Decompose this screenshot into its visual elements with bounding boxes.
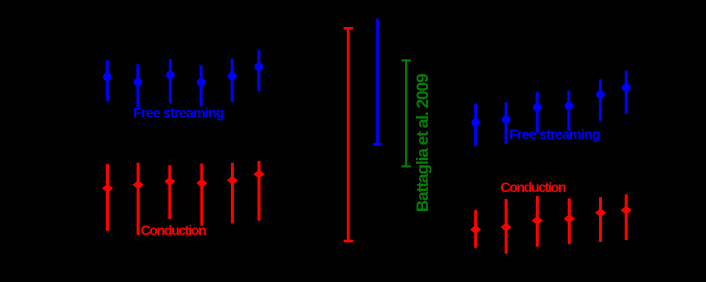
right panel: conduction point 5 error bar <box>599 197 602 242</box>
left panel: conduction point 1 marker <box>104 185 111 191</box>
right panel: free-streaming point 5 marker <box>596 91 605 99</box>
left panel: conduction point 5 marker <box>229 177 236 183</box>
left panel: free-streaming point 5 marker <box>228 72 237 80</box>
left panel: free-streaming point 6 error bar <box>257 50 260 91</box>
right panel: conduction point 1 error bar <box>474 210 477 248</box>
left panel: label Free streaming <box>133 104 224 120</box>
right panel: free-streaming point 3 error bar <box>536 92 539 133</box>
right panel: label Free streaming <box>509 126 600 142</box>
right panel: free-streaming point 1 marker <box>471 119 480 127</box>
left panel: free-streaming point 4 error bar <box>200 65 203 106</box>
left panel: conduction point 1 error bar <box>106 164 109 231</box>
left panel: free-streaming point 1 error bar <box>106 60 109 101</box>
left panel: free-streaming point 5 error bar <box>231 59 234 102</box>
right panel: conduction point 4 error bar <box>568 198 571 244</box>
left panel: conduction point 3 error bar <box>168 165 171 219</box>
svg-text:Conduction: Conduction <box>141 222 207 238</box>
left panel: conduction point 6 error bar <box>258 161 261 221</box>
svg-text:Battaglia et al. 2009: Battaglia et al. 2009 <box>413 74 432 212</box>
right panel: free-streaming point 6 error bar <box>625 71 628 114</box>
left panel: free-streaming point 2 error bar <box>136 64 139 107</box>
left panel: label Conduction <box>141 222 207 238</box>
left panel: conduction point 4 marker <box>198 180 205 186</box>
left panel: conduction point 6 marker <box>255 171 262 177</box>
left panel: conduction point 4 error bar <box>200 164 203 226</box>
left panel: free-streaming point 2 marker <box>134 78 143 86</box>
left panel: free-streaming point 6 marker <box>254 63 263 71</box>
svg-text:Conduction: Conduction <box>500 179 566 195</box>
left panel: free-streaming point 4 marker <box>197 78 206 86</box>
left panel: conduction point 3 marker <box>166 178 173 184</box>
left panel: conduction point 2 marker <box>134 182 141 188</box>
right panel: conduction point 1 marker <box>472 227 479 233</box>
right panel: conduction point 3 marker <box>534 218 541 224</box>
right panel: free-streaming point 3 marker <box>533 103 542 111</box>
right panel: free-streaming point 5 error bar <box>599 79 602 121</box>
right panel: free-streaming point 4 error bar <box>567 91 570 131</box>
middle: rotated green label Battaglia et al. 2009 <box>413 74 432 212</box>
right panel: conduction point 4 marker <box>566 216 573 222</box>
right panel: label Conduction <box>500 179 566 195</box>
svg-text:Free streaming: Free streaming <box>133 104 224 120</box>
left panel: free-streaming point 3 error bar <box>169 59 172 104</box>
right panel: conduction point 2 marker <box>502 224 509 230</box>
right panel: free-streaming point 2 error bar <box>505 102 508 144</box>
middle: red simulation error bar vertical line <box>344 27 354 242</box>
svg-text:Free streaming: Free streaming <box>509 126 600 142</box>
left panel: conduction point 5 error bar <box>231 163 234 224</box>
right panel: free-streaming point 1 error bar <box>474 104 477 146</box>
right panel: conduction point 5 marker <box>597 210 604 216</box>
left panel: free-streaming point 1 marker <box>103 73 112 81</box>
right panel: free-streaming point 4 marker <box>564 102 573 110</box>
middle: blue simulation error bar with bottom cap <box>373 19 382 146</box>
right panel: conduction point 3 error bar <box>536 196 539 247</box>
right panel: free-streaming point 2 marker <box>502 115 511 123</box>
right panel: conduction point 6 marker <box>623 207 630 213</box>
left panel: conduction point 2 error bar <box>137 163 140 235</box>
left panel: free-streaming point 3 marker <box>166 71 175 79</box>
middle: green Battaglia et al. 2009 error bar <box>401 59 411 167</box>
right panel: conduction point 2 error bar <box>505 199 508 254</box>
right panel: conduction point 6 error bar <box>625 194 628 240</box>
right panel: free-streaming point 6 marker <box>622 84 631 92</box>
